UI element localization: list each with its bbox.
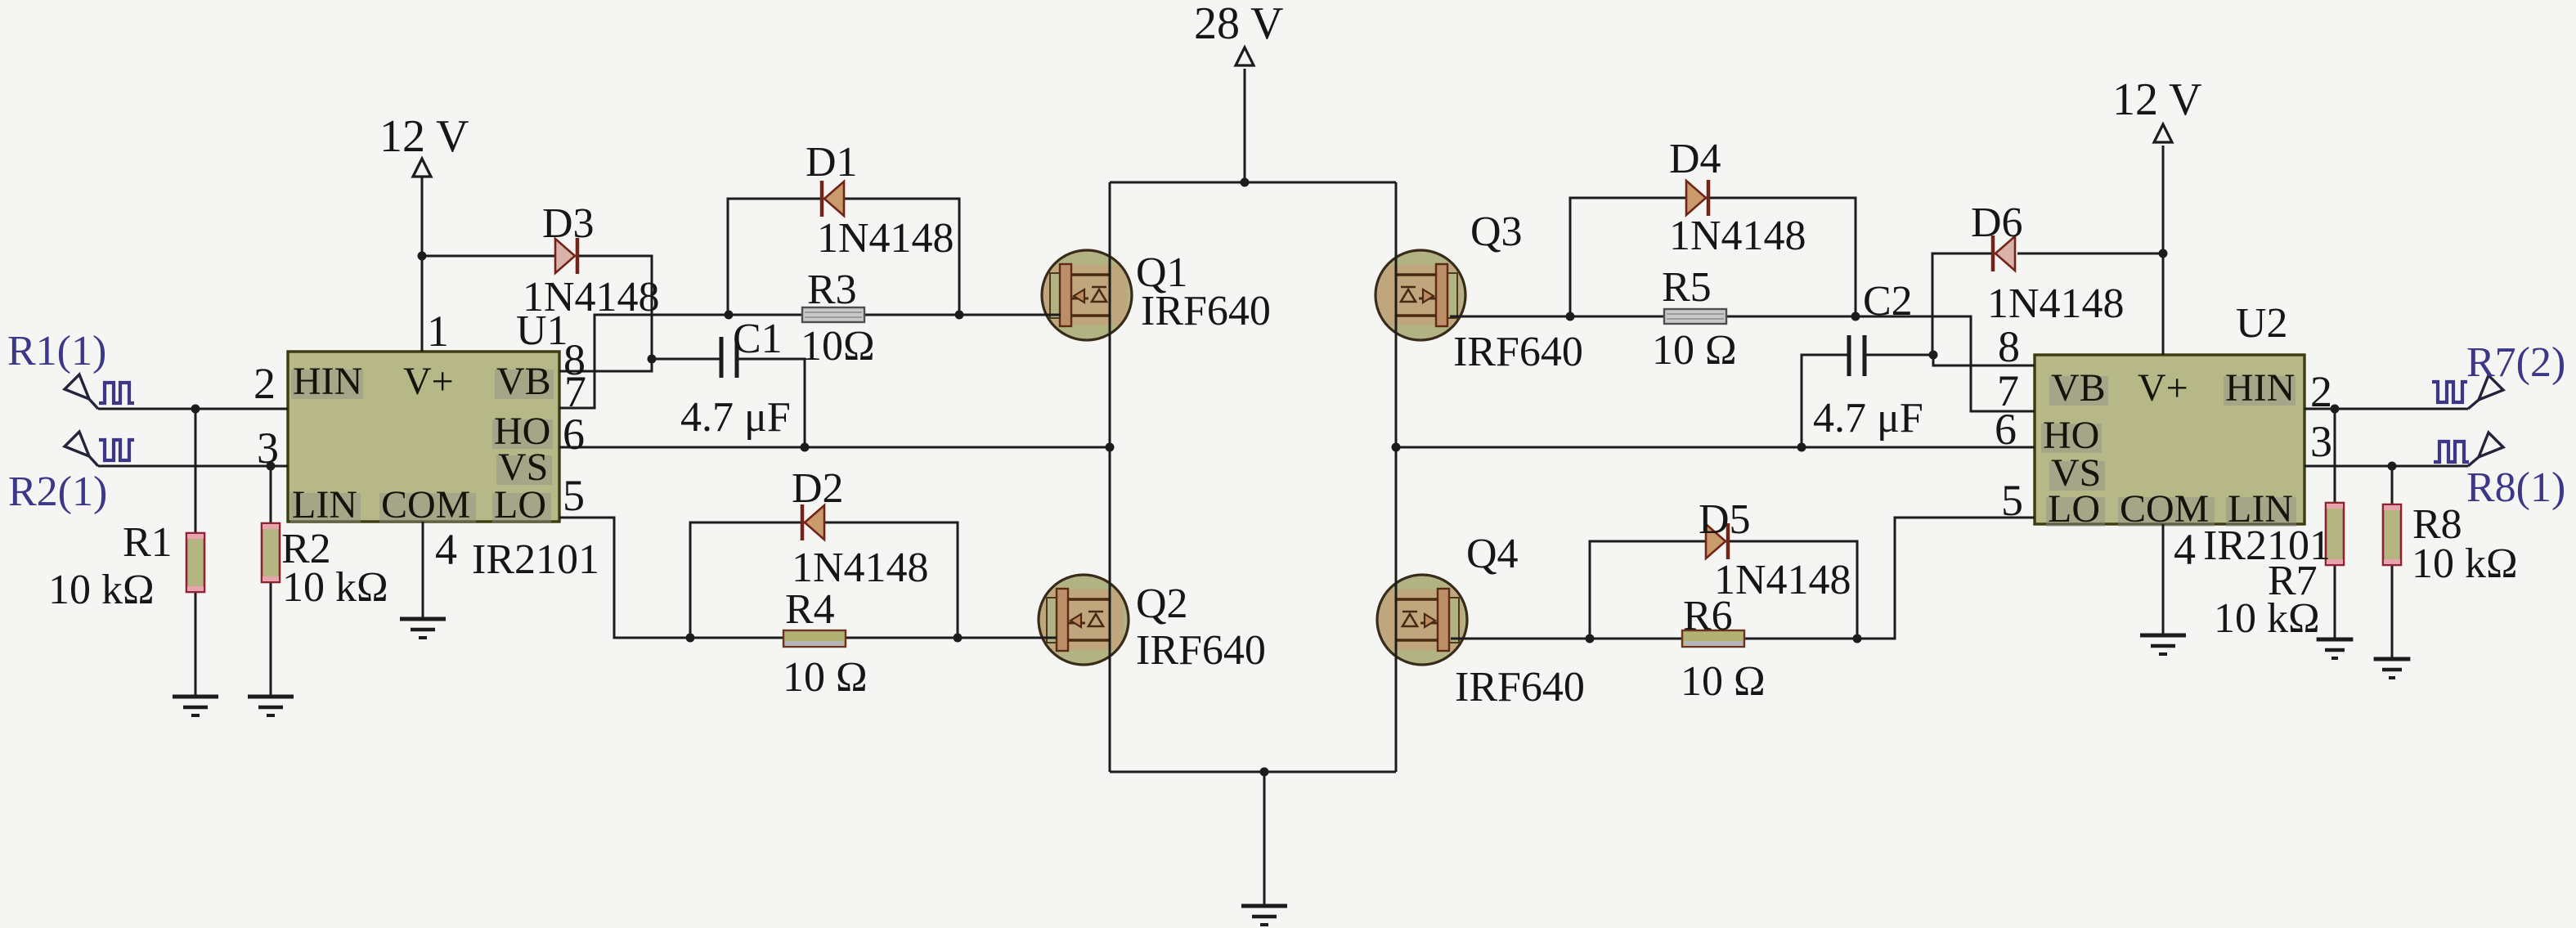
node bridge ground junction <box>1260 768 1269 777</box>
power 12V arrow right <box>2154 124 2172 142</box>
node Q3 gate junction <box>1566 312 1575 321</box>
U1 pin name HO <box>492 419 553 449</box>
U2 pin name VS <box>2049 461 2105 491</box>
resistor R4 body <box>783 630 846 647</box>
svg-text:U2: U2 <box>2236 300 2288 347</box>
svg-text:R4: R4 <box>785 586 835 633</box>
U2 pin name COM <box>2118 497 2215 527</box>
node Q4 gate junction <box>1586 634 1595 643</box>
ground R1 <box>173 697 218 715</box>
wire R8 bottom to ground <box>2391 565 2394 659</box>
wire U1 pin 8 VB stub <box>559 359 652 371</box>
U2 pin name LIN <box>2226 497 2296 527</box>
svg-text:3: 3 <box>2310 417 2332 466</box>
svg-text:R3: R3 <box>807 267 857 313</box>
svg-text:10Ω: 10Ω <box>801 323 875 370</box>
svg-text:R1(1): R1(1) <box>7 328 106 374</box>
wire VB node to C1 left plate <box>652 358 721 361</box>
U1 pin name VB <box>495 370 554 399</box>
input terminal R2(1) <box>65 432 98 466</box>
wire bridge top rail <box>1110 182 1396 184</box>
svg-text:R5: R5 <box>1662 264 1712 311</box>
svg-text:HIN: HIN <box>2225 366 2295 410</box>
diode D3 1N4148 <box>555 238 577 274</box>
svg-text:R2(1): R2(1) <box>8 468 107 515</box>
transistor Q1 IRF640 <box>1042 250 1132 340</box>
wire 12V stem to U1 V+ pin 1 <box>421 176 424 352</box>
resistor R3 body <box>802 307 864 322</box>
svg-text:Q3: Q3 <box>1470 208 1523 255</box>
node LO2 right junction <box>1853 634 1862 643</box>
svg-text:Q2: Q2 <box>1136 581 1188 627</box>
node 12V-D3 junction <box>418 252 427 261</box>
svg-text:LO: LO <box>494 483 546 527</box>
pulse glyph output R7 <box>2432 382 2467 402</box>
svg-text:3: 3 <box>257 424 279 473</box>
diode D4 1N4148 <box>1686 180 1708 216</box>
svg-text:4: 4 <box>2174 525 2196 574</box>
svg-text:IRF640: IRF640 <box>1136 627 1266 674</box>
output terminal R7(2) <box>2468 375 2503 409</box>
svg-text:R7(2): R7(2) <box>2466 339 2565 386</box>
U2 pin name HIN <box>2224 376 2296 406</box>
wire U2 COM pin 4 stem <box>2162 524 2165 635</box>
wire D3 cathode to VB node <box>578 256 652 359</box>
wire R7 bottom to ground <box>2334 565 2336 639</box>
wire R3 to Q1 gate <box>864 314 1061 316</box>
node HO2 right junction <box>1851 312 1860 321</box>
wire U1 VS pin 6 line to bridge mid-left <box>559 446 1110 449</box>
svg-text:1N4148: 1N4148 <box>817 215 954 262</box>
wire LO line left of R4 <box>690 637 784 639</box>
svg-text:10 Ω: 10 Ω <box>1681 658 1766 705</box>
node R8 junction <box>2388 462 2397 471</box>
wire HO gate line left of R3 <box>728 314 803 316</box>
svg-text:2: 2 <box>254 359 276 408</box>
resistor R8 body <box>2383 504 2401 565</box>
svg-text:D2: D2 <box>792 465 844 512</box>
svg-text:IRF640: IRF640 <box>1455 664 1585 711</box>
svg-text:D6: D6 <box>1971 199 2023 246</box>
svg-text:C1: C1 <box>733 316 783 362</box>
svg-text:5: 5 <box>2001 476 2023 525</box>
svg-text:7: 7 <box>564 367 586 416</box>
svg-text:R6: R6 <box>1683 593 1733 639</box>
wire gate line to R5 <box>1570 316 1664 318</box>
wire bridge ground stem <box>1263 772 1266 906</box>
svg-text:6: 6 <box>1995 405 2017 454</box>
capacitor C2 <box>1849 335 1865 376</box>
node HIN1 junction <box>191 405 200 414</box>
resistor R1 body <box>186 533 204 592</box>
pulse glyph input 2 <box>99 440 134 460</box>
wire D1 left leg <box>728 199 824 315</box>
wire bridge bottom rail <box>1110 771 1396 773</box>
diode D1 1N4148 <box>822 181 844 217</box>
diode D2 1N4148 <box>802 504 824 540</box>
U2 pin name LO <box>2046 497 2105 527</box>
node VS2 bridge junction <box>1392 443 1401 452</box>
wire R4 to Q2 gate <box>846 637 1057 639</box>
wire U1 pin 7 HO stub up to gate line <box>559 315 728 408</box>
wire bridge right vertical Q3-Q4 <box>1395 182 1398 772</box>
U1 pin name VS <box>496 455 552 485</box>
resistor R2 body <box>262 523 280 582</box>
ground U1 COM <box>400 619 446 638</box>
svg-text:IRF640: IRF640 <box>1141 288 1271 334</box>
wire R7 top drop <box>2334 409 2336 503</box>
ground R8 <box>2374 659 2411 678</box>
svg-text:1N4148: 1N4148 <box>1714 557 1851 603</box>
wire D2 right leg <box>824 522 958 638</box>
svg-text:D4: D4 <box>1669 136 1721 182</box>
node 28V rail junction <box>1241 178 1250 187</box>
wire D5 left leg <box>1590 541 1706 639</box>
wire U2 pin 5 LO stub <box>1857 518 2035 639</box>
wire LO line right of R6 <box>1744 638 1857 640</box>
resistor R6 body <box>1682 630 1744 647</box>
U2 pin name HO <box>2041 424 2102 453</box>
svg-text:VB: VB <box>496 360 551 403</box>
svg-text:6: 6 <box>563 410 585 459</box>
wire D4 right leg <box>1706 198 1856 316</box>
svg-text:1: 1 <box>427 307 449 356</box>
svg-text:10 kΩ: 10 kΩ <box>2412 540 2518 587</box>
svg-text:2: 2 <box>2310 367 2332 416</box>
wire R5 right to HO drop <box>1727 316 2035 411</box>
svg-text:D1: D1 <box>806 139 858 186</box>
svg-text:10 Ω: 10 Ω <box>1652 327 1737 374</box>
svg-text:Q4: Q4 <box>1466 531 1519 577</box>
pulse glyph input 1 <box>99 383 134 403</box>
svg-text:R1: R1 <box>123 519 173 566</box>
svg-text:VB: VB <box>2051 366 2106 410</box>
wire U1 pin 5 LO stub <box>559 518 690 638</box>
svg-text:1N4148: 1N4148 <box>1669 213 1806 259</box>
node LO1 left junction <box>686 634 695 643</box>
ground R2 <box>248 697 294 715</box>
ground bridge <box>1241 906 1287 925</box>
svg-text:V+: V+ <box>403 360 454 403</box>
svg-text:12 V: 12 V <box>2112 74 2201 125</box>
U1 pin name HIN <box>291 370 363 399</box>
svg-text:1N4148: 1N4148 <box>1987 280 2125 327</box>
pulse glyph output R8 <box>2434 442 2469 462</box>
node LIN1 junction <box>267 462 276 471</box>
resistor R5 body <box>1664 309 1726 324</box>
wire D1 right leg <box>844 199 959 315</box>
wire U2 pin 8 VB stub <box>1933 355 2035 365</box>
wire D2 left leg <box>690 522 805 638</box>
svg-text:10 kΩ: 10 kΩ <box>282 564 388 611</box>
output terminal R8(1) <box>2468 433 2503 466</box>
svg-text:5: 5 <box>563 471 585 520</box>
svg-text:R8(1): R8(1) <box>2466 464 2565 511</box>
svg-text:D3: D3 <box>542 200 595 247</box>
svg-text:10 kΩ: 10 kΩ <box>2214 595 2320 642</box>
wire C2 left plate leg to VS <box>1802 355 1849 447</box>
svg-text:V+: V+ <box>2138 366 2188 410</box>
node VB1 junction (D3/C1/pin8) <box>648 355 657 364</box>
wire D4 left leg <box>1570 198 1686 316</box>
wire D6 cathode to VB node <box>1932 253 1993 355</box>
wire C2 right plate to VB node <box>1865 354 1933 356</box>
input terminal R1(1) <box>65 374 98 409</box>
svg-text:1N4148: 1N4148 <box>792 545 929 591</box>
svg-text:LO: LO <box>2048 487 2100 531</box>
wire input LIN1 horizontal <box>98 465 288 468</box>
transistor Q4 IRF640 <box>1377 575 1467 665</box>
power 12V arrow left <box>413 159 431 177</box>
svg-text:4: 4 <box>435 525 457 574</box>
diode D6 1N4148 <box>1993 235 2015 271</box>
svg-text:IR2101: IR2101 <box>472 536 599 583</box>
node 12V-D6 junction <box>2159 249 2168 258</box>
node VB2 junction (D6/C2/pin8) <box>1929 351 1938 360</box>
svg-text:HIN: HIN <box>293 360 362 403</box>
svg-text:4.7 μF: 4.7 μF <box>1813 395 1923 442</box>
svg-text:28 V: 28 V <box>1194 0 1283 49</box>
wire R1 top drop <box>195 409 197 533</box>
wire U2 pin 2 output <box>2304 408 2468 410</box>
wire R2 top drop <box>270 466 272 523</box>
wire C1 right plate to VS drop <box>737 359 805 447</box>
ground U2 COM <box>2140 635 2186 654</box>
svg-text:8: 8 <box>1998 322 2020 371</box>
wire bridge left vertical Q1-Q2 <box>1109 182 1111 772</box>
node Q2 gate junction <box>954 634 963 643</box>
svg-text:10 kΩ: 10 kΩ <box>48 567 155 613</box>
svg-text:LIN: LIN <box>292 483 357 527</box>
ground R7 <box>2317 639 2354 658</box>
transistor Q2 IRF640 <box>1039 575 1129 665</box>
svg-text:1N4148: 1N4148 <box>523 274 660 321</box>
node VS1 bridge junction <box>1106 443 1115 452</box>
power 28V arrow <box>1236 47 1254 65</box>
wire 28V stem <box>1244 69 1246 182</box>
wire R2 bottom to ground <box>270 582 272 697</box>
U1 pin name LIN <box>290 493 361 522</box>
node C1-VS junction <box>801 443 810 452</box>
node Q1 gate junction <box>955 311 964 320</box>
svg-text:12 V: 12 V <box>379 111 469 162</box>
svg-text:IRF640: IRF640 <box>1453 329 1583 375</box>
wire R8 top drop <box>2391 466 2394 504</box>
wire D5 right leg <box>1726 541 1857 639</box>
U1 pin name COM <box>379 493 476 522</box>
transistor Q3 IRF640 <box>1376 250 1465 340</box>
wire D6 anode from 12V <box>2017 253 2163 255</box>
wire right 12V stem to U2 V+ <box>2162 146 2165 355</box>
IC U2 IR2101 body <box>2035 355 2304 524</box>
svg-text:D5: D5 <box>1699 496 1751 543</box>
svg-text:C2: C2 <box>1863 278 1913 325</box>
wire U2 pin 3 output <box>2304 465 2468 468</box>
IC U1 IR2101 body <box>288 352 559 522</box>
capacitor C1 <box>721 337 737 378</box>
wire input HIN1 horizontal <box>98 408 288 410</box>
wire R6 to Q4 gate <box>1451 638 1683 640</box>
U2 pin name VB <box>2049 376 2108 406</box>
wire D3 anode from 12V <box>422 255 555 258</box>
svg-text:10 Ω: 10 Ω <box>783 654 868 701</box>
wire U1 COM pin 4 stem <box>422 522 424 619</box>
wire Q3 gate line <box>1450 316 1570 318</box>
svg-text:4.7 μF: 4.7 μF <box>680 394 791 441</box>
U1 pin name LO <box>492 493 551 522</box>
wire R1 bottom to ground <box>195 592 197 697</box>
svg-text:COM: COM <box>381 483 470 527</box>
node C2-VS junction <box>1797 443 1806 452</box>
wire U2 VS pin 6 line to bridge mid-right <box>1396 446 2035 449</box>
resistor R7 body <box>2326 503 2344 565</box>
diode D5 1N4148 <box>1706 523 1728 559</box>
node HO1 left junction <box>725 311 734 320</box>
node R7 junction <box>2331 405 2340 414</box>
